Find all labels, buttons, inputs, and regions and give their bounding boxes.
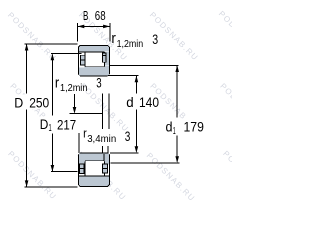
svg-text:d: d (126, 94, 133, 110)
roller right outline (103, 53, 105, 67)
outer ring band bottom line (79, 51, 105, 53)
r 3,4 leader line (78, 133, 80, 153)
roller left outline (84, 53, 86, 67)
dimension B extension line left (77, 23, 79, 42)
dimension D extension line top (25, 43, 78, 45)
label r 1,2min 3 (middle left) (55, 74, 102, 94)
arrow D1 top (51, 54, 55, 61)
dimension d1 extension line top (109, 64, 179, 66)
dimension d extension line top (108, 75, 138, 77)
svg-text:179: 179 (184, 118, 205, 134)
outer ring band top line (79, 175, 109, 177)
svg-text:1,2min: 1,2min (117, 39, 144, 50)
dimension D extension line bottom (25, 186, 78, 188)
svg-text:r: r (111, 30, 116, 47)
dimension D1 extension line top (51, 53, 82, 55)
svg-text:140: 140 (139, 94, 159, 110)
arrow d1 top (175, 65, 179, 72)
arrow r 1,2 left leader (73, 107, 77, 114)
svg-text:3: 3 (96, 75, 102, 91)
svg-text:1: 1 (49, 123, 52, 134)
svg-text:1: 1 (173, 126, 176, 137)
dimension d1 line (176, 66, 178, 162)
svg-text:217: 217 (57, 117, 76, 133)
dimension d extension line bottom (110, 152, 138, 154)
inner ring with flanges (top of lower section) (79, 153, 109, 164)
svg-text:1,2min: 1,2min (60, 83, 87, 94)
white gap + label d1 179 (164, 119, 205, 135)
bottom shoulder vertical line 2 (107, 146, 109, 154)
label r 1,2min 3 (top) (111, 30, 158, 50)
white gap + label D1 217 (39, 117, 78, 133)
svg-text:D: D (40, 116, 49, 132)
r 1,2 left leader line (74, 94, 76, 107)
label B 68 (83, 9, 106, 23)
dimension B extension line right / leader r top (109, 23, 111, 42)
svg-text:3,4min: 3,4min (87, 134, 116, 145)
svg-text:r: r (55, 74, 59, 91)
arrow B right (103, 25, 110, 29)
arrow d top (135, 76, 139, 83)
arrow D1 bottom (51, 165, 55, 172)
svg-text:3: 3 (152, 31, 158, 47)
outer ring right flange (105, 52, 109, 65)
svg-text:B: B (83, 9, 88, 23)
roller right outline (103, 162, 105, 176)
arrowheads (25, 25, 179, 188)
white gap + label D 250 (13, 95, 50, 110)
svg-text:r: r (83, 126, 87, 140)
arrow D top (25, 44, 29, 51)
cage bar left (bottom section) (80, 164, 85, 173)
label r 3,4min 3 (bottom) (83, 126, 130, 145)
roller left outline (84, 162, 86, 176)
inner ring right flange inner edge (103, 154, 105, 161)
dimension D1 extension line bottom (51, 171, 78, 173)
white gap + label d 140 (125, 94, 159, 109)
inner ring with flanges (79, 66, 109, 76)
svg-text:3: 3 (125, 128, 131, 144)
outer ring top band (79, 46, 109, 51)
arrow d1 bottom (175, 156, 179, 163)
svg-text:250: 250 (29, 94, 49, 110)
arrow B left (78, 25, 85, 29)
inner ring bottom line over roller (85, 160, 105, 162)
svg-text:68: 68 (95, 9, 106, 23)
cage bar left (80, 55, 85, 65)
shoulder vertical line 2 (108, 94, 110, 129)
section body white base with chamfered outline (78, 45, 109, 76)
svg-text:d: d (166, 118, 173, 134)
arrow d bottom (135, 146, 139, 153)
cage bar right (bottom section) (103, 164, 108, 173)
dimension d1 extension line bottom (111, 162, 180, 164)
dimension B line (78, 25, 110, 27)
shoulder vertical line 1 (101, 94, 103, 129)
watermark PODSNAB.RU tiles (6, 9, 273, 203)
shaft shoulder surface line (69, 113, 102, 115)
section body white base with chamfered outline (78, 153, 109, 187)
dimension d line (135, 76, 137, 151)
roller white body (86, 161, 104, 175)
roller white body (86, 53, 104, 67)
dimension D line (26, 44, 28, 187)
inner ring top line under roller (85, 66, 105, 68)
arrow D bottom (25, 180, 29, 187)
bottom shoulder vertical line 1 (101, 146, 103, 154)
cage bar right (103, 53, 107, 62)
dimension D1 line (51, 54, 53, 170)
outer ring bottom band (79, 177, 109, 187)
svg-text:D: D (14, 94, 23, 110)
